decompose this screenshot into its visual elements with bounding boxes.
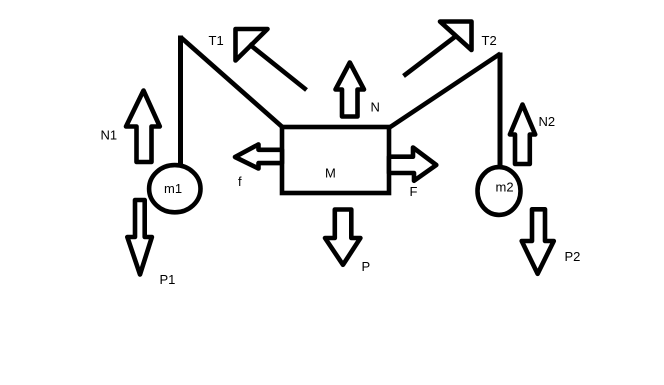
- force arrow P down: [325, 210, 360, 265]
- force arrow F right: [389, 148, 436, 181]
- svg-text:N2: N2: [539, 114, 556, 129]
- wire rope right vertical: [498, 53, 503, 167]
- svg-text:P2: P2: [565, 249, 581, 264]
- wire rope left vertical: [178, 36, 183, 165]
- svg-text:T1: T1: [209, 33, 224, 48]
- block M: [282, 127, 389, 193]
- svg-text:f: f: [238, 174, 242, 189]
- svg-text:F: F: [410, 184, 418, 199]
- wire rope right diagonal: [388, 54, 501, 129]
- svg-text:N: N: [371, 100, 380, 115]
- force arrow N1 up: [126, 91, 160, 163]
- svg-text:m1: m1: [164, 181, 182, 196]
- arrow T2 shaft: [404, 36, 457, 76]
- arrow T1 shaft: [249, 44, 307, 90]
- svg-text:m2: m2: [496, 180, 514, 195]
- force arrow f left: [235, 144, 282, 168]
- force arrow P2 down: [522, 209, 554, 273]
- force arrow N up: [336, 63, 365, 117]
- svg-text:T2: T2: [482, 33, 497, 48]
- force arrow P1 down: [127, 200, 152, 275]
- svg-text:N1: N1: [101, 128, 118, 143]
- arrow T1 head: [236, 29, 268, 61]
- svg-text:P: P: [362, 259, 371, 274]
- svg-text:P1: P1: [160, 272, 176, 287]
- wire rope left diagonal: [181, 38, 284, 129]
- svg-text:M: M: [325, 166, 336, 181]
- arrow T2 head: [440, 22, 472, 51]
- force arrow N2 up: [510, 105, 535, 165]
- mass m2 circle: [478, 167, 521, 215]
- mass m1 circle: [149, 165, 200, 212]
